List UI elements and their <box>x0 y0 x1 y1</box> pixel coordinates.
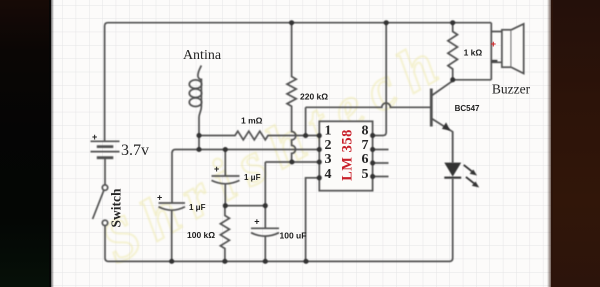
svg-text:+: + <box>157 193 162 203</box>
svg-text:+: + <box>214 164 219 174</box>
svg-text:LM 358: LM 358 <box>340 129 356 181</box>
svg-text:3.7v: 3.7v <box>121 142 149 159</box>
svg-text:Antina: Antina <box>183 48 222 63</box>
svg-text:1 mΩ: 1 mΩ <box>241 116 263 126</box>
svg-text:2: 2 <box>325 138 332 153</box>
svg-text:100 uF: 100 uF <box>280 231 307 241</box>
svg-text:+: + <box>92 132 97 142</box>
svg-text:+: + <box>491 39 497 50</box>
svg-text:1: 1 <box>325 123 332 138</box>
svg-text:100 kΩ: 100 kΩ <box>187 230 215 240</box>
svg-text:BC547: BC547 <box>455 104 480 113</box>
svg-text:Buzzer: Buzzer <box>492 82 531 97</box>
svg-text:220 kΩ: 220 kΩ <box>300 91 328 101</box>
svg-text:3: 3 <box>325 152 332 167</box>
svg-text:5: 5 <box>362 167 369 182</box>
svg-text:6: 6 <box>362 152 369 167</box>
svg-text:Switch: Switch <box>109 188 124 227</box>
svg-text:1 kΩ: 1 kΩ <box>464 48 483 58</box>
svg-text:4: 4 <box>325 167 332 182</box>
svg-text:7: 7 <box>362 138 369 153</box>
svg-text:1 μF: 1 μF <box>189 203 206 212</box>
svg-text:1 μF: 1 μF <box>244 173 261 182</box>
svg-text:8: 8 <box>362 123 369 138</box>
svg-text:+: + <box>254 217 259 227</box>
